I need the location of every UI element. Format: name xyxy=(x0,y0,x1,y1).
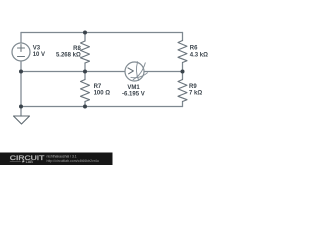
svg-text:7 kΩ: 7 kΩ xyxy=(189,91,202,97)
svg-text:nishthakaushal / 3.1: nishthakaushal / 3.1 xyxy=(47,155,77,159)
svg-text:10 V: 10 V xyxy=(33,52,45,58)
svg-text:LAB: LAB xyxy=(26,160,34,164)
svg-text:100 Ω: 100 Ω xyxy=(94,90,111,96)
svg-text:4.3 kΩ: 4.3 kΩ xyxy=(190,52,208,58)
svg-text:R6: R6 xyxy=(190,45,198,51)
svg-text:R7: R7 xyxy=(94,84,102,90)
svg-text:R8: R8 xyxy=(73,46,81,52)
svg-text:V3: V3 xyxy=(33,46,41,52)
svg-text:R9: R9 xyxy=(189,84,197,90)
svg-text:VM1: VM1 xyxy=(127,85,140,91)
svg-text:5.268 kΩ: 5.268 kΩ xyxy=(56,52,81,58)
svg-text:-6.195 V: -6.195 V xyxy=(122,92,145,98)
svg-text:http://circuitlab.com/c4t66ktr: http://circuitlab.com/c4t66ktr2vr4u xyxy=(47,159,99,163)
